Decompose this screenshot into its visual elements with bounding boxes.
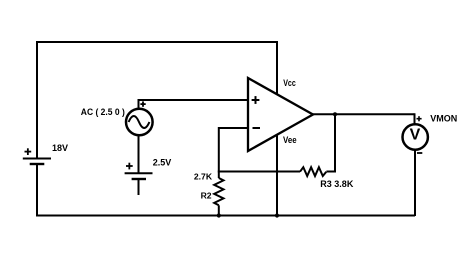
junction dot Vee / bottom rail xyxy=(275,213,279,217)
op-amp minus input sign xyxy=(253,127,261,129)
wire down to voltmeter top xyxy=(414,113,416,124)
AC source plus sign xyxy=(140,101,145,106)
wire left rail from battery V1 down to bottom rail xyxy=(36,165,38,217)
op-amp plus input sign xyxy=(252,96,260,104)
svg-text:R3 3.8K: R3 3.8K xyxy=(320,179,354,189)
resistor R2 bottom stub to rail xyxy=(218,205,220,216)
svg-text:VMON: VMON xyxy=(430,113,457,123)
wire op-amp minus input to feedback node xyxy=(219,127,248,172)
wire Vcc drop from top rail to op-amp xyxy=(276,41,278,95)
battery V3 bottom stub xyxy=(138,180,140,196)
wire AC source top to op-amp plus input xyxy=(138,100,249,109)
wire op-amp output to voltmeter xyxy=(312,113,415,115)
svg-text:18V: 18V xyxy=(52,143,68,153)
svg-text:R2: R2 xyxy=(201,191,212,201)
svg-text:2.5V: 2.5V xyxy=(153,158,172,168)
wire left rail from top rail down to battery V1 xyxy=(36,41,38,158)
junction dot R2 / bottom rail xyxy=(217,213,221,217)
svg-text:Vee: Vee xyxy=(283,135,297,145)
battery V3 plus sign xyxy=(126,163,133,170)
svg-text:Vcc: Vcc xyxy=(283,78,296,88)
op-amp U1 triangle xyxy=(248,78,313,151)
wire bottom rail xyxy=(36,215,415,217)
voltmeter plus sign xyxy=(417,116,422,121)
wire AC source bottom to battery V3 xyxy=(138,136,140,174)
wire top rail V1+ to Vcc xyxy=(36,41,277,43)
wire R3 right end up to output node xyxy=(326,114,335,173)
battery V1 18V long plate (+) xyxy=(23,158,51,160)
AC source V2 circle xyxy=(126,109,153,136)
svg-text:AC ( 2.5 0 ): AC ( 2.5 0 ) xyxy=(81,107,125,117)
battery V3 2.5V long plate (+) xyxy=(125,172,153,174)
wire feedback node to R3 xyxy=(218,171,300,173)
wire voltmeter bottom to bottom rail xyxy=(414,149,416,216)
resistor R2 zigzag xyxy=(214,178,223,205)
voltmeter VMON circle xyxy=(403,124,428,149)
battery V1 plus sign xyxy=(25,148,32,155)
AC source sine wave xyxy=(129,116,150,128)
resistor R2 top stub xyxy=(218,172,220,179)
junction dot output node xyxy=(333,112,337,116)
resistor R3 zigzag xyxy=(300,167,326,176)
wire Vee drop from op-amp to bottom rail xyxy=(276,135,278,215)
battery V3 2.5V short plate (-) xyxy=(132,178,146,180)
svg-text:V: V xyxy=(410,126,421,143)
battery V1 18V short plate (-) xyxy=(30,163,45,165)
svg-text:2.7K: 2.7K xyxy=(194,172,213,182)
voltmeter minus sign xyxy=(417,152,422,154)
